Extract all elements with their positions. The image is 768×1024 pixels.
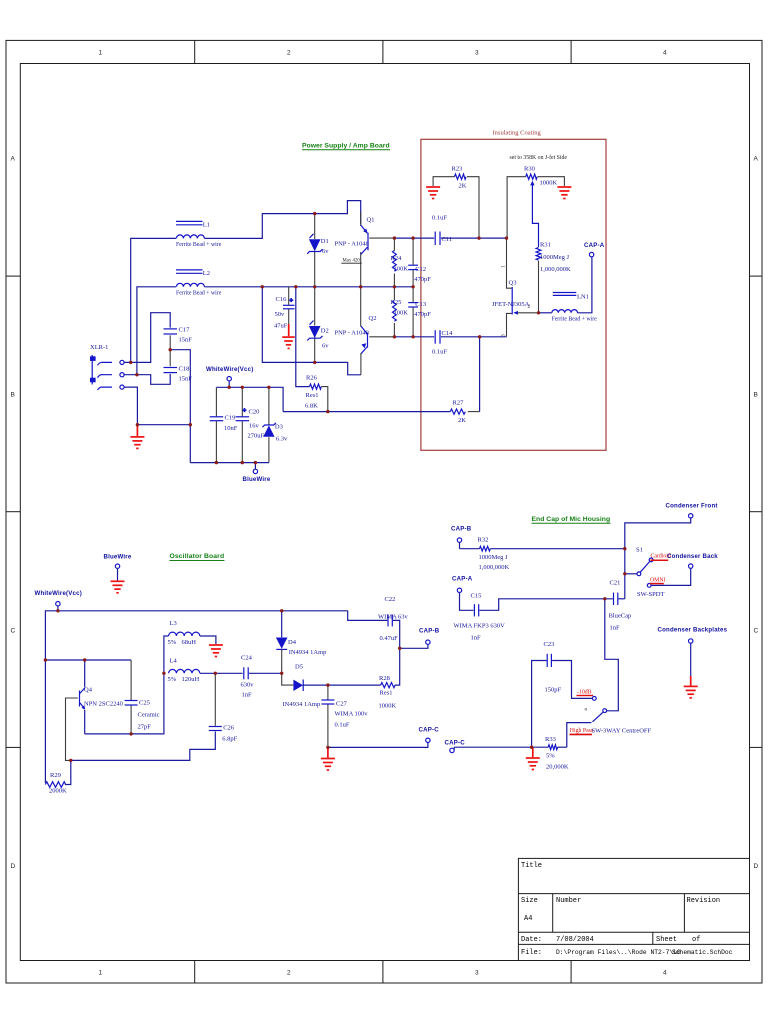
svg-text:4: 4 [663,50,667,57]
net label Condenser Front [625,503,718,549]
svg-text:WhiteWire(Vcc): WhiteWire(Vcc) [206,366,253,373]
svg-text:1,000,000K: 1,000,000K [479,564,510,571]
svg-text:1000Meg J: 1000Meg J [479,554,509,561]
svg-text:C17: C17 [179,327,191,334]
svg-text:of: of [692,936,700,944]
junction (216.4,462.6) [215,461,218,464]
svg-text:R25: R25 [391,299,402,306]
wire R30 left lead down to row1 [507,177,526,238]
capacitor C24 [241,654,255,698]
wire L3 left to L4 [164,636,169,673]
svg-text:WIMA FKP3 630V: WIMA FKP3 630V [454,623,506,630]
svg-text:Q4: Q4 [84,687,93,694]
svg-text:Power Supply / Amp Board: Power Supply / Amp Board [302,143,390,150]
wire R26 right lead down to R27 row [321,387,328,412]
wire XLR pin1 row [124,313,170,363]
junction (314.7,213.6) [313,212,316,215]
transistor Q3 JFET [492,265,531,337]
wire CAP-C row osc [328,743,428,748]
junction (262.3,286.8) [261,285,264,288]
svg-text:C26: C26 [223,725,235,732]
svg-text:CAP-B: CAP-B [419,628,440,635]
svg-text:7/08/2004: 7/08/2004 [556,936,594,944]
svg-text:File:: File: [521,949,542,957]
svg-text:C16: C16 [276,296,288,303]
junction (57.9,610.8) [56,609,59,612]
wire R27 row [283,411,450,413]
svg-text:B: B [754,392,758,399]
wire R33 row [453,747,455,749]
svg-text:C18: C18 [179,366,190,373]
svg-text:2K: 2K [458,417,466,424]
svg-text:LN1: LN1 [577,294,589,301]
capacitor C14 [432,330,453,356]
svg-text:A4: A4 [524,915,532,923]
svg-text:C14: C14 [442,330,454,337]
wire D4 column [281,611,283,638]
svg-text:6v: 6v [322,248,329,255]
capacitor C17 [164,327,193,344]
svg-text:470pF: 470pF [414,311,431,318]
junction (394.4,286.8) [393,285,396,288]
svg-text:C12: C12 [415,266,426,273]
junction (255.4,462.6) [254,461,257,464]
svg-text:1: 1 [99,50,103,57]
svg-text:15nF: 15nF [179,376,193,383]
label Max 420 [341,258,361,263]
svg-text:C24: C24 [241,654,253,661]
svg-text:R32: R32 [478,537,489,544]
net label Condenser Backplates [658,627,728,677]
svg-text:D: D [754,863,759,870]
junction (242.3,387.3) [241,386,244,389]
net label WhiteWire(Vcc) osc [35,590,82,611]
svg-text:1000K: 1000K [540,180,558,187]
junction (242.3,462.6) [241,461,244,464]
resistor R28 [379,675,397,710]
svg-text:1,000,000K: 1,000,000K [540,266,571,273]
capacitor C20 polarized [236,408,265,439]
svg-text:IN4934 1Amp: IN4934 1Amp [289,649,327,656]
svg-text:PNP - A1048: PNP - A1048 [335,330,369,337]
net label CAP-B endcap [451,526,472,549]
svg-text:D1: D1 [321,238,329,245]
junction (281.7,673.3) [280,672,283,675]
svg-text:Schematic.SchDoc: Schematic.SchDoc [672,949,733,956]
wire R28 right up to CAP-B node [395,648,400,685]
junction dots top section [129,212,540,464]
capacitor C27 [321,700,368,729]
wire C17 bottom junction to C18 top [169,335,171,366]
junction (163.9,673.3) [162,672,165,675]
ground XLR (red) [130,425,144,449]
junction (360.7,286.8) [359,285,362,288]
svg-text:68uH: 68uH [182,639,197,646]
svg-text:set to 358K on J-fet Side: set to 358K on J-fet Side [510,154,568,161]
wire row2 from L2 to C12 column [204,286,413,288]
net label CAP-C osc [419,726,440,742]
wire D5 row to R28 [303,684,381,686]
net label Condenser Back [651,564,693,586]
svg-text:C19: C19 [225,415,236,422]
svg-text:C25: C25 [139,700,150,707]
svg-text:OMNI: OMNI [650,577,666,583]
svg-text:27pF: 27pF [138,724,152,731]
svg-text:0.1uF: 0.1uF [432,349,447,356]
transistor Q4 NPN [80,687,123,710]
wire C24 right to D4 node [249,672,282,674]
ground BlueWire (red) [111,581,125,593]
svg-text:3: 3 [475,970,479,977]
svg-text:2: 2 [287,970,291,977]
junction (327.9,685.1) [326,683,329,686]
svg-text:WIMA 100v: WIMA 100v [335,711,369,718]
svg-text:Number: Number [556,897,581,905]
net label CAP-B osc [400,628,440,649]
svg-text:C: C [11,628,16,635]
svg-text:High Pass: High Pass [570,728,594,734]
wire D3 leads [268,387,270,424]
wire Q4 cell top row [45,659,131,661]
switch S1 OMNI contact [637,577,666,598]
svg-text:C20: C20 [249,409,260,416]
junction (413.1,286.8) [411,285,414,288]
svg-text:BlueWire: BlueWire [243,476,271,483]
svg-text:XLR-1: XLR-1 [90,344,108,351]
junction (394.4,336.8) [393,335,396,338]
svg-text:630v: 630v [241,682,255,689]
resistor R23 [452,166,467,190]
svg-text:D2: D2 [321,328,329,335]
net label WhiteWire(Vcc) top [206,366,253,381]
capacitor C15 [454,593,506,642]
svg-text:2K: 2K [459,183,467,190]
svg-text:+: + [243,408,247,414]
svg-text:JFET-NJ305A: JFET-NJ305A [492,301,530,308]
capacitor C21 [609,580,632,632]
svg-text:2000K: 2000K [49,788,67,795]
svg-text:CAP-C: CAP-C [419,726,440,733]
junction (190.3,424.7) [189,423,192,426]
wire Q1 collector to row2 [360,252,362,287]
svg-text:C: C [754,628,759,635]
svg-text:6v: 6v [322,343,329,350]
capacitor C13 [408,287,431,337]
wire C23 row [532,661,547,748]
junction (538.5,312.8) [537,311,540,314]
svg-text:6.8K: 6.8K [305,403,318,410]
junction (136.9,374.7) [135,373,138,376]
wire R30 wiper to R31 [532,183,538,247]
wire SW-3WAY common to R33 [567,723,592,748]
ground C16 (red) [282,337,294,348]
svg-text:1000Meg J: 1000Meg J [540,254,570,261]
svg-text:+: + [290,298,294,304]
junction (531.6,747.2) [530,746,533,749]
svg-text:Size: Size [521,897,538,905]
svg-text:R23: R23 [452,166,463,173]
svg-text:Res1: Res1 [306,392,319,399]
inductor L4 [168,657,200,683]
wire R27 to row3 [479,337,481,412]
svg-text:o: o [585,707,588,713]
svg-text:Max 420: Max 420 [343,258,361,263]
svg-text:D3: D3 [275,424,283,431]
wire row1 Q1 base to C11 and Q3 drain [369,237,394,239]
svg-text:D4: D4 [288,639,297,646]
svg-text:120uH: 120uH [182,676,200,683]
wire LN1 to CAP-A [577,257,592,313]
svg-text:0.1uF: 0.1uF [432,215,447,222]
junction (84.7,660) [83,658,86,661]
svg-text:47uF: 47uF [274,322,288,329]
wire WhiteWire row [216,387,283,411]
svg-text:C21: C21 [610,580,621,587]
svg-text:3: 3 [475,50,479,57]
capacitor C22 [378,596,409,642]
svg-text:D: D [11,863,16,870]
svg-text:50v: 50v [275,311,286,318]
svg-text:100K: 100K [394,309,409,316]
junction (413.1,336.8) [411,335,414,338]
wire Q3 gate lead [515,312,539,314]
wire C15 to C21 row [479,599,612,611]
connector XLR-1 [90,344,124,390]
zener diode D3 [263,423,289,443]
junction (327.9,747.4) [326,746,329,749]
inductor L3 [168,620,200,646]
wire D1-D2 vertical [314,214,316,239]
net label CAP-A [584,242,605,257]
svg-text:CAP-C: CAP-C [445,739,466,746]
junction (215.3,673.3) [214,672,217,675]
svg-text:D:\Program Files\..\Rode NT2-7: D:\Program Files\..\Rode NT2-7\L0 [556,949,681,956]
svg-text:S1: S1 [636,547,643,554]
svg-text:R33: R33 [545,736,556,743]
junction (131.1,733.9) [129,732,132,735]
wire C17/C18 junction right down to ground row and BlueWire row [170,350,190,463]
svg-text:SW-3WAY CentreOFF: SW-3WAY CentreOFF [592,728,652,735]
svg-text:SW-SPDT: SW-SPDT [637,591,664,598]
wire XLR pin3 to ground row [124,387,190,425]
svg-text:5%: 5% [168,676,177,683]
inductor LN1 ferrite bead [552,293,598,323]
junction (479,238.1) [477,236,480,239]
wire C25 leads [130,660,132,700]
svg-text:A: A [754,156,759,163]
svg-text:BlueCap: BlueCap [609,613,632,620]
resistor R31 [536,242,571,274]
svg-text:1: 1 [99,970,103,977]
capacitor C16 polarized [274,296,295,329]
svg-text:6.8pF: 6.8pF [222,736,237,743]
section headers [170,143,611,561]
svg-text:0.1uF: 0.1uF [335,722,350,729]
svg-text:470pF: 470pF [414,276,431,283]
wire Q4 bottom row [85,673,164,734]
junction (314.7,286.8) [313,285,316,288]
zener diode D1 [307,234,329,255]
wire R32 row [460,548,480,550]
resistor R32 [478,537,510,572]
junction (170.2,349.7) [169,348,172,351]
zener diode D2 [307,321,329,350]
svg-text:NPN 2SC2240: NPN 2SC2240 [84,701,123,708]
capacitor C26 [209,725,238,743]
svg-text:C11: C11 [442,236,453,243]
wire Q4 base drop [66,698,78,760]
svg-text:WhiteWire(Vcc): WhiteWire(Vcc) [35,590,82,597]
ground R30 (red) [557,187,571,199]
wire Q3 source [507,313,512,336]
wire C26 column [214,673,216,726]
svg-text:2: 2 [287,50,291,57]
wire Q4 emitter down [84,710,86,734]
svg-text:Ferrite Bead + wire: Ferrite Bead + wire [176,242,222,248]
svg-text:4: 4 [663,970,667,977]
ground R33 (red) [526,747,540,769]
wire R29 right to bottom row [65,760,71,784]
diode D4 [276,638,327,656]
svg-text:10nF: 10nF [224,425,238,432]
svg-text:R30: R30 [524,166,535,173]
net label BlueWire bottom [243,469,271,483]
resistor R26 [305,375,321,410]
resistor R27 [450,400,466,425]
wire L4 row to C24 [200,672,243,674]
wire XLR pin2 row [124,374,170,384]
svg-text:Res1: Res1 [380,690,393,697]
junction (604.8,598.8) [603,597,606,600]
svg-text:End Cap of Mic Housing: End Cap of Mic Housing [532,516,611,523]
trimmer R30 [524,166,558,187]
junction (394.4,238.1) [393,236,396,239]
wire L3 right to ground [200,636,216,644]
wire C16 leads [288,287,290,305]
svg-text:Ceramic: Ceramic [138,712,160,719]
svg-text:R26: R26 [306,375,318,382]
junction dots osc [44,609,402,762]
svg-text:Ferrite Bead + wire: Ferrite Bead + wire [552,316,598,322]
junction (281.7,610.8) [280,609,283,612]
switch SW-3WAY [570,690,652,736]
wire R23 leads [433,177,454,186]
svg-text:B: B [11,392,15,399]
wire C27 column [327,685,329,700]
svg-text:Condenser Back: Condenser Back [667,553,718,560]
svg-text:Oscillator Board: Oscillator Board [170,553,225,560]
wire Q3 drain [507,238,512,288]
svg-text:16v: 16v [249,423,260,430]
resistor R33 [545,736,569,771]
wire osc bottom row [71,732,216,761]
svg-text:R28: R28 [379,675,390,682]
svg-text:L2: L2 [203,270,210,277]
wire BlueWire stem [254,463,256,470]
svg-text:L1: L1 [203,221,210,228]
svg-text:20,000K: 20,000K [546,764,569,771]
switch S1 [625,547,719,599]
wire L1 left lead to XLR pin1 [131,238,176,362]
wire R31 to gate node [538,261,540,313]
svg-text:150pF: 150pF [545,687,562,694]
svg-text:270uF: 270uF [248,433,265,440]
resistor R29 [45,772,67,795]
wire row3 Q2 base to C14 and Q3 source [369,336,394,338]
svg-text:C13: C13 [415,301,426,308]
junction (327.8,411.6) [326,410,329,413]
capacitor C11 [432,215,452,246]
svg-text:C15: C15 [471,593,482,600]
svg-text:3: 3 [501,334,507,337]
resistor R24 [391,251,409,273]
svg-text:Q2: Q2 [369,315,377,322]
svg-text:IN4934 1Amp: IN4934 1Amp [283,701,321,708]
junction (624.8,573.8) [623,572,626,575]
capacitor C23 [544,641,562,694]
wire branch row2 down to Q2 emitter row [262,287,361,375]
junction (295.8,286.8) [294,285,297,288]
svg-text:CAP-A: CAP-A [452,576,473,583]
junction (314.7,362.4) [313,361,316,364]
svg-text:Q1: Q1 [367,217,375,224]
junction (268.9,387.3) [267,386,270,389]
wire R30 right lead to ground [538,177,565,186]
transistor Q2 PNP [335,315,377,375]
svg-text:R31: R31 [540,242,551,249]
svg-text:CAP-A: CAP-A [584,242,605,249]
svg-text:2: 2 [528,304,531,310]
ground L3 (red) [209,645,223,657]
svg-text:Ferrite Bead + wire: Ferrite Bead + wire [176,290,222,296]
junction dots endcap [530,547,627,749]
svg-text:Revision: Revision [687,897,721,905]
ground R23 (red) [426,187,440,199]
junction (137.4,424.7) [136,423,139,426]
wire BlueWire bottom row [190,462,269,464]
svg-text:R29: R29 [50,772,61,779]
ground Condenser Backplates (red) [684,676,698,698]
svg-text:1nF: 1nF [242,692,253,699]
svg-text:L4: L4 [170,657,178,664]
svg-text:0.47uF: 0.47uF [380,635,399,642]
junction (70.8,760.4) [69,759,72,762]
svg-text:Date:: Date: [521,936,542,944]
junction (506.5,238.1) [505,236,508,239]
svg-text:Q3: Q3 [509,280,517,287]
junction (130.7,362.4) [129,361,132,364]
junction (399.7,648.3) [398,647,401,650]
net label CAP-A endcap [452,576,474,611]
wire WhiteWire stem [228,381,230,387]
svg-text:1nF: 1nF [471,635,482,642]
junction (479.6,336.8) [478,335,481,338]
svg-text:BlueWire: BlueWire [104,554,132,561]
junction (229.2,387.3) [228,386,231,389]
wire C22 branch [348,611,388,621]
junction (413.1,238.1) [411,236,414,239]
svg-text:Insulating Coating: Insulating Coating [493,130,542,137]
ground C27 (red) [321,747,335,770]
svg-text:Sheet: Sheet [656,936,677,944]
wire Q2 collector to row2 [360,287,362,326]
wire C21 right up to S1 column [618,598,624,600]
net label CAP-C endcap [445,739,466,752]
svg-text:CAP-B: CAP-B [451,526,472,533]
junction (624.8,548.7) [623,547,626,550]
inductor L2 ferrite bead [176,270,222,297]
insulating coating box [421,130,606,451]
